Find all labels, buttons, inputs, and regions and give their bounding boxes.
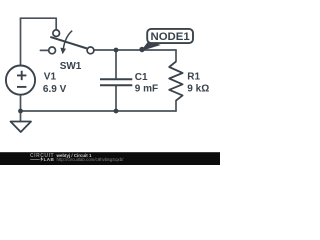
wire V1 bottom lead [20,95,22,111]
svg-text:R1: R1 [187,71,200,82]
wire C1 top lead [115,50,117,78]
svg-text:C1: C1 [135,72,148,83]
resistor R1 [169,62,182,101]
footer url text [57,157,125,162]
svg-text:9 mF: 9 mF [135,84,158,95]
svg-text:6.9 V: 6.9 V [43,84,67,95]
wire SW1 common to node [94,49,176,51]
capacitor C1 [100,79,132,85]
label V1 name [44,72,57,83]
svg-text:LAB: LAB [44,157,55,162]
label C1 value 9 mF [135,84,158,95]
label R1 value 9 kOhm [187,84,209,95]
wire R1 top lead [175,50,177,62]
voltage source V1 [6,66,35,95]
label SW1 name [60,61,82,72]
label C1 name [135,72,148,83]
switch SW1 [49,30,94,54]
wire V1 top lead [20,18,22,65]
svg-text:9 kΩ: 9 kΩ [187,84,209,95]
ground [11,122,32,133]
wire SW1 open-throw stub [40,49,48,51]
wire C1 bottom lead [115,86,117,111]
svg-text:SW1: SW1 [60,61,82,72]
wire drop to SW1 top throw [55,18,57,30]
footer title text [56,153,92,158]
footer bar [0,152,220,165]
label V1 value 6.9 V [43,84,67,95]
svg-text:V1: V1 [44,72,57,83]
wire bottom return [21,110,177,112]
wire top horizontal run [21,17,57,19]
junction dot at C1 top [114,48,119,53]
wire ground stub [20,111,22,122]
junction dot at V1 minus / bottom rail [18,109,23,114]
node NODE1 flag [139,29,193,52]
junction dot at C1 bottom [114,109,119,114]
CircuitLab logo [30,153,55,162]
label R1 name [187,71,200,82]
svg-text:http://circuitlab.com/c9hvb6gS: http://circuitlab.com/c9hvb6gSqxb/ [57,157,125,162]
wire R1 bottom lead [175,101,177,111]
svg-text:NODE1: NODE1 [150,31,190,43]
